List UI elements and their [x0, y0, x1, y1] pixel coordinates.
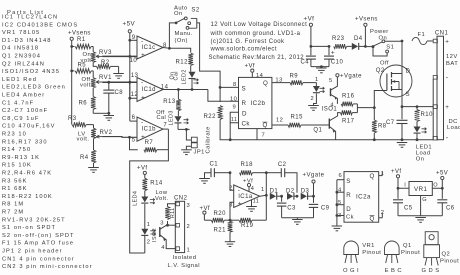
svg-text:C10: C10	[331, 60, 344, 66]
ground IC2a	[332, 225, 343, 227]
svg-text:G: G	[422, 197, 427, 203]
svg-text:1: 1	[147, 222, 151, 228]
wire R6 C8 join	[93, 112, 109, 114]
capacitor C10	[311, 45, 329, 47]
svg-text:LED2,LED3 Green: LED2,LED3 Green	[2, 85, 66, 91]
svg-text:Pinout: Pinout	[362, 250, 381, 256]
svg-text:R18-R22 100K: R18-R22 100K	[2, 194, 53, 200]
svg-text:S: S	[346, 178, 351, 185]
svg-text:RV1-RV3 20K-25T: RV1-RV3 20K-25T	[2, 217, 66, 223]
svg-text:R1 68K: R1 68K	[2, 186, 28, 192]
wire R22 to ground rail	[220, 120, 433, 140]
svg-text:5: 5	[329, 78, 333, 84]
svg-text:LED2: LED2	[182, 69, 188, 84]
ground C4 C10	[311, 66, 329, 68]
svg-text:RV3: RV3	[99, 50, 112, 56]
wire output node vertical	[265, 173, 267, 221]
LED1 Load On	[414, 127, 421, 133]
svg-text:R7: R7	[145, 140, 154, 146]
svg-text:3: 3	[338, 213, 342, 219]
svg-text:R21: R21	[214, 227, 227, 233]
svg-text:+5V: +5V	[123, 21, 136, 28]
wire R16 R17 to gate node	[356, 104, 358, 113]
svg-text:Calibrate: Calibrate	[206, 126, 212, 153]
wire IC1a output	[260, 194, 267, 197]
svg-text:R16: R16	[342, 94, 355, 100]
svg-text:4: 4	[251, 186, 255, 192]
svg-text:R14 750: R14 750	[2, 147, 31, 153]
svg-text:S: S	[406, 92, 410, 98]
svg-text:R5: R5	[78, 62, 87, 68]
svg-text:Pinout: Pinout	[440, 259, 459, 265]
svg-text:D4 IN5818: D4 IN5818	[2, 46, 39, 52]
wire +5V reference rail	[129, 33, 131, 121]
svg-text:S1 on-on SPDT: S1 on-on SPDT	[2, 225, 56, 231]
svg-text:R4: R4	[80, 155, 89, 161]
svg-text:JP1: JP1	[194, 150, 205, 156]
svg-text:IC2b: IC2b	[251, 100, 266, 107]
svg-text:3: 3	[187, 203, 191, 209]
svg-text:Q: Q	[370, 215, 375, 222]
svg-text:IC1b: IC1b	[142, 127, 157, 133]
ground ISO1	[314, 97, 317, 106]
svg-text:11: 11	[231, 117, 237, 123]
svg-text:-: -	[446, 135, 449, 142]
capacitor C6	[441, 188, 443, 199]
svg-text:IC1 TLC27L4CN: IC1 TLC27L4CN	[2, 15, 58, 21]
wire IC1a plus input	[230, 202, 234, 220]
wire LED4 to ISO2 LED	[144, 204, 146, 229]
svg-text:On: On	[174, 11, 183, 17]
wire R3 to RV2	[93, 125, 95, 129]
svg-text:RV1: RV1	[99, 75, 112, 81]
svg-text:LED4: LED4	[132, 191, 138, 206]
svg-text:D4: D4	[354, 36, 363, 42]
svg-text:Q1 2N3904: Q1 2N3904	[2, 54, 41, 60]
svg-text:R16,R17 330: R16,R17 330	[2, 139, 48, 145]
wire rail to pin6	[130, 120, 137, 122]
ground C3 C9	[282, 217, 314, 219]
svg-text:+Vgate: +Vgate	[340, 74, 362, 80]
wire RV1 to R6	[92, 88, 94, 97]
svg-text:4: 4	[330, 102, 334, 108]
svg-text:C7: C7	[386, 120, 395, 126]
svg-text:R23 10: R23 10	[2, 132, 27, 138]
svg-text:G D S: G D S	[422, 268, 440, 274]
svg-text:12 Volt Low Voltage Disconnect: 12 Volt Low Voltage Disconnect	[211, 22, 308, 28]
svg-text:BAT: BAT	[446, 61, 458, 67]
svg-text:IC1d: IC1d	[142, 87, 156, 93]
svg-text:Q2: Q2	[442, 252, 451, 258]
ISO1 phototransistor	[330, 88, 332, 96]
wire RV1 wiper to IC1d	[102, 81, 137, 83]
svg-text:Q: Q	[370, 173, 375, 180]
capacitor C5	[397, 188, 399, 199]
svg-text:R22: R22	[204, 114, 217, 120]
Q2 pinout TO-220	[425, 232, 438, 245]
svg-text:C8: C8	[115, 90, 124, 96]
ground C1	[199, 178, 210, 180]
ground R2	[118, 66, 120, 73]
svg-text:L.V. Signal: L.V. Signal	[168, 263, 200, 269]
wire VR1 ground	[420, 196, 422, 216]
svg-text:R: R	[242, 100, 247, 107]
svg-text:S: S	[242, 85, 247, 92]
svg-text:R13: R13	[163, 99, 176, 105]
svg-text:R7 2M: R7 2M	[2, 210, 24, 216]
svg-text:+Vf: +Vf	[304, 15, 315, 22]
ground VR1	[415, 217, 426, 219]
svg-text:R6: R6	[79, 101, 88, 107]
wire jog to pin12	[130, 82, 137, 98]
svg-text:C2-C7 100nF: C2-C7 100nF	[2, 108, 48, 114]
wire Q2 source to load	[401, 97, 403, 107]
ground JP1	[181, 149, 192, 151]
svg-text:CN1: CN1	[435, 30, 449, 36]
svg-text:Load: Load	[416, 150, 431, 156]
svg-text:2: 2	[187, 224, 191, 230]
wire Q2 drain	[401, 41, 403, 65]
svg-text:+Vgate: +Vgate	[303, 172, 325, 178]
svg-text:Off: Off	[380, 60, 389, 66]
svg-text:O: O	[433, 182, 438, 188]
svg-text:R8 1M: R8 1M	[2, 202, 24, 208]
wire VR1 output	[432, 180, 442, 189]
ground R4	[88, 167, 99, 169]
svg-text:C5: C5	[404, 205, 413, 211]
svg-text:R15: R15	[291, 114, 304, 120]
svg-text:Pinout: Pinout	[401, 250, 420, 256]
svg-text:Power: Power	[370, 29, 389, 35]
svg-text:Ck: Ck	[346, 215, 354, 221]
svg-text:I: I	[404, 182, 406, 188]
wire IC1a minus input	[230, 173, 234, 191]
svg-text:Isolated: Isolated	[173, 255, 197, 261]
svg-text:CN2 3 pin mini-connector: CN2 3 pin mini-connector	[2, 264, 93, 270]
wire gate	[374, 91, 387, 108]
svg-text:4: 4	[161, 245, 165, 251]
svg-text:R20: R20	[214, 211, 227, 217]
svg-text:D3: D3	[301, 188, 310, 194]
svg-text:R18: R18	[241, 162, 254, 168]
svg-text:S2: S2	[191, 8, 199, 14]
svg-text:7: 7	[262, 133, 266, 139]
svg-text:R1: R1	[77, 37, 86, 43]
svg-text:R17: R17	[342, 118, 355, 124]
capacitor C4	[310, 46, 312, 55]
svg-text:O G I: O G I	[343, 268, 359, 274]
svg-text:-: -	[141, 80, 144, 87]
svg-text:(On): (On)	[175, 38, 188, 44]
svg-text:+: +	[141, 52, 145, 59]
svg-text:LED3: LED3	[168, 110, 174, 125]
svg-text:+5V: +5V	[436, 171, 448, 177]
svg-text:+Vf: +Vf	[245, 64, 256, 70]
Q1 pinout TO-92	[385, 241, 400, 255]
svg-text:1: 1	[187, 247, 191, 253]
svg-text:2: 2	[147, 240, 151, 246]
wire ISO2 emitter	[160, 235, 176, 249]
svg-text:+Vf: +Vf	[137, 165, 148, 171]
svg-text:3: 3	[160, 221, 164, 227]
wire rail to pin9	[130, 39, 137, 41]
svg-text:with common ground. LVD1-a: with common ground. LVD1-a	[210, 31, 301, 37]
svg-text:Cal: Cal	[157, 115, 167, 121]
svg-text:(c)2011 G. Forrest Cook: (c)2011 G. Forrest Cook	[211, 39, 285, 45]
wire R1 to RV3	[92, 47, 94, 52]
svg-text:D: D	[346, 206, 351, 213]
svg-text:F1 15 Amp ATO fuse: F1 15 Amp ATO fuse	[2, 241, 74, 247]
svg-text:Q: Q	[263, 80, 268, 87]
svg-text:R23: R23	[332, 36, 345, 42]
svg-text:Q2 IRLZ44N: Q2 IRLZ44N	[2, 61, 45, 67]
svg-text:VR1 78L05: VR1 78L05	[2, 30, 40, 36]
svg-text:IC1c: IC1c	[142, 45, 156, 51]
svg-text:www.solorb.com/elect: www.solorb.com/elect	[210, 47, 277, 53]
svg-text:C9: C9	[321, 205, 330, 211]
wire +Vsens rail	[71, 40, 73, 124]
svg-text:+: +	[445, 104, 449, 111]
svg-text:C3: C3	[287, 205, 296, 211]
svg-text:E B C: E B C	[385, 268, 402, 274]
svg-text:C6: C6	[446, 205, 455, 211]
svg-text:4: 4	[338, 188, 342, 194]
svg-text:F1: F1	[418, 32, 426, 38]
VR1 pinout TO-92	[344, 241, 359, 255]
capacitor C3	[281, 196, 283, 202]
svg-text:R12: R12	[176, 60, 189, 66]
svg-text:R3 56K: R3 56K	[2, 178, 28, 184]
svg-text:IC1a: IC1a	[238, 194, 253, 200]
ground R21	[225, 241, 235, 243]
wire IC1c out to S2 and R12	[169, 23, 176, 48]
wire CN1 minus to rail	[432, 79, 434, 140]
svg-text:C1 4.7nF: C1 4.7nF	[2, 100, 34, 106]
svg-text:IC2a: IC2a	[356, 194, 371, 201]
svg-text:Cal: Cal	[174, 71, 180, 80]
svg-text:R10: R10	[421, 112, 434, 118]
svg-text:Q1: Q1	[403, 243, 412, 249]
svg-text:RV2: RV2	[100, 130, 113, 136]
svg-text:Ck: Ck	[242, 121, 251, 128]
svg-text:9: 9	[132, 35, 136, 41]
svg-text:14: 14	[256, 73, 264, 79]
svg-text:Volt.: Volt.	[155, 196, 169, 202]
svg-text:D: D	[242, 111, 247, 118]
svg-text:-: -	[446, 74, 449, 81]
svg-text:JP1 2 pin header: JP1 2 pin header	[2, 249, 63, 255]
svg-text:R: R	[346, 192, 351, 199]
wire RV2 wiper to IC1b pin5	[103, 136, 138, 139]
ISO2 phototransistor	[159, 227, 161, 237]
svg-text:R15 10K: R15 10K	[2, 163, 32, 169]
svg-text:C2: C2	[278, 162, 287, 168]
svg-text:IC2 CD4013BE CMOS: IC2 CD4013BE CMOS	[2, 22, 78, 28]
svg-text:12: 12	[276, 118, 283, 124]
svg-text:5: 5	[338, 200, 342, 206]
svg-text:ISO1/ISO2 4N35: ISO1/ISO2 4N35	[2, 69, 60, 75]
svg-text:CN2: CN2	[174, 195, 188, 201]
wire S2 to IC2b S pin	[197, 23, 220, 102]
svg-text:9: 9	[233, 105, 237, 111]
flip-flop IC2b	[239, 77, 272, 128]
wire LED3 to JP1	[178, 128, 190, 130]
svg-text:2: 2	[311, 96, 315, 102]
svg-text:1: 1	[315, 77, 319, 83]
svg-text:+: +	[238, 200, 242, 207]
svg-text:Q: Q	[263, 122, 268, 129]
capacitor C8	[107, 81, 110, 84]
ground at output rail	[397, 142, 407, 144]
svg-text:1: 1	[261, 187, 265, 193]
flip-flop IC2a	[344, 172, 379, 223]
ground R6 C8	[108, 113, 110, 115]
svg-text:LED4 Amber: LED4 Amber	[2, 93, 45, 99]
wire IC1b output loop to ISO2	[130, 129, 169, 253]
svg-text:Load: Load	[447, 125, 460, 131]
svg-text:6: 6	[339, 173, 343, 179]
svg-text:S1: S1	[386, 45, 394, 51]
svg-text:LED1 Red: LED1 Red	[2, 77, 37, 83]
svg-text:12V: 12V	[446, 54, 458, 60]
capacitor C9	[313, 196, 315, 203]
svg-text:R9-R13 1K: R9-R13 1K	[2, 155, 40, 161]
svg-text:+Vsens: +Vsens	[68, 30, 91, 36]
svg-text:Manu.: Manu.	[175, 31, 193, 37]
svg-text:-: -	[141, 119, 144, 126]
wire VR1 input	[398, 178, 409, 188]
regulator VR1	[409, 182, 432, 196]
svg-text:C1: C1	[210, 162, 219, 168]
svg-text:C10 470uF,16V: C10 470uF,16V	[2, 124, 56, 130]
svg-text:volt.: volt.	[80, 83, 93, 89]
svg-text:C8,C9 1uF: C8,C9 1uF	[2, 116, 39, 122]
svg-text:Q1: Q1	[313, 128, 322, 134]
svg-text:VR1: VR1	[362, 243, 375, 249]
svg-text:+: +	[445, 38, 449, 45]
svg-text:CN1 4 pin connector: CN1 4 pin connector	[2, 256, 75, 262]
wire ISO2 collector to CN2 pin2	[168, 224, 176, 226]
svg-text:+Vsens: +Vsens	[355, 16, 378, 22]
svg-text:Schematic Rev:March 21, 2012: Schematic Rev:March 21, 2012	[209, 55, 305, 61]
svg-text:10: 10	[130, 58, 138, 64]
svg-text:On: On	[416, 156, 425, 162]
svg-text:5: 5	[132, 138, 136, 144]
svg-text:S2 on-off-(on) SPDT: S2 on-off-(on) SPDT	[2, 233, 75, 239]
svg-text:+Vf: +Vf	[391, 169, 402, 175]
svg-text:6: 6	[132, 115, 136, 121]
svg-text:R3: R3	[68, 116, 77, 122]
svg-text:D1-D3 IN4148: D1-D3 IN4148	[2, 38, 52, 44]
svg-text:+: +	[141, 94, 145, 101]
wire RV3 to R2	[93, 63, 96, 67]
svg-text:volt.: volt.	[77, 137, 90, 143]
svg-text:D: D	[406, 68, 411, 74]
+Vgate terminal at ISO1	[336, 74, 339, 77]
svg-text:R2,R4-R6 47K: R2,R4-R6 47K	[2, 171, 52, 177]
svg-text:+: +	[331, 49, 335, 56]
svg-text:R19: R19	[241, 223, 254, 229]
wire RV3 wiper to IC1c pin10	[102, 55, 137, 57]
svg-text:C4: C4	[301, 60, 310, 66]
svg-text:R14: R14	[150, 181, 163, 187]
svg-text:R9: R9	[290, 74, 299, 80]
svg-text:VR1: VR1	[414, 186, 427, 193]
svg-text:11: 11	[253, 199, 260, 205]
wire R5 to RV1	[92, 71, 94, 78]
wire RV2 to R4	[93, 139, 95, 150]
svg-text:7: 7	[163, 123, 167, 129]
